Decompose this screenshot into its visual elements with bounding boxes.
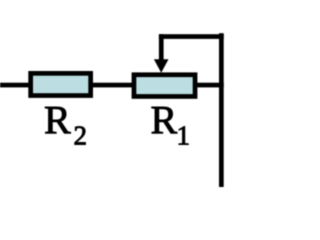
arrowhead pointing onto R1 <box>154 59 169 73</box>
resistor R1 <box>134 75 195 97</box>
wire feedback right vertical (to bottom edge) <box>219 33 224 187</box>
svg-text:R: R <box>151 98 178 143</box>
svg-text:1: 1 <box>177 121 191 151</box>
wire feedback top horizontal <box>159 34 224 39</box>
svg-text:R: R <box>44 98 71 143</box>
wire arrow stem (tap down from feedback wire) <box>159 34 164 62</box>
wire main horizontal (input through R2 and R1 to output node) <box>0 83 224 88</box>
resistor R2 <box>31 73 91 95</box>
svg-text:2: 2 <box>74 121 88 151</box>
